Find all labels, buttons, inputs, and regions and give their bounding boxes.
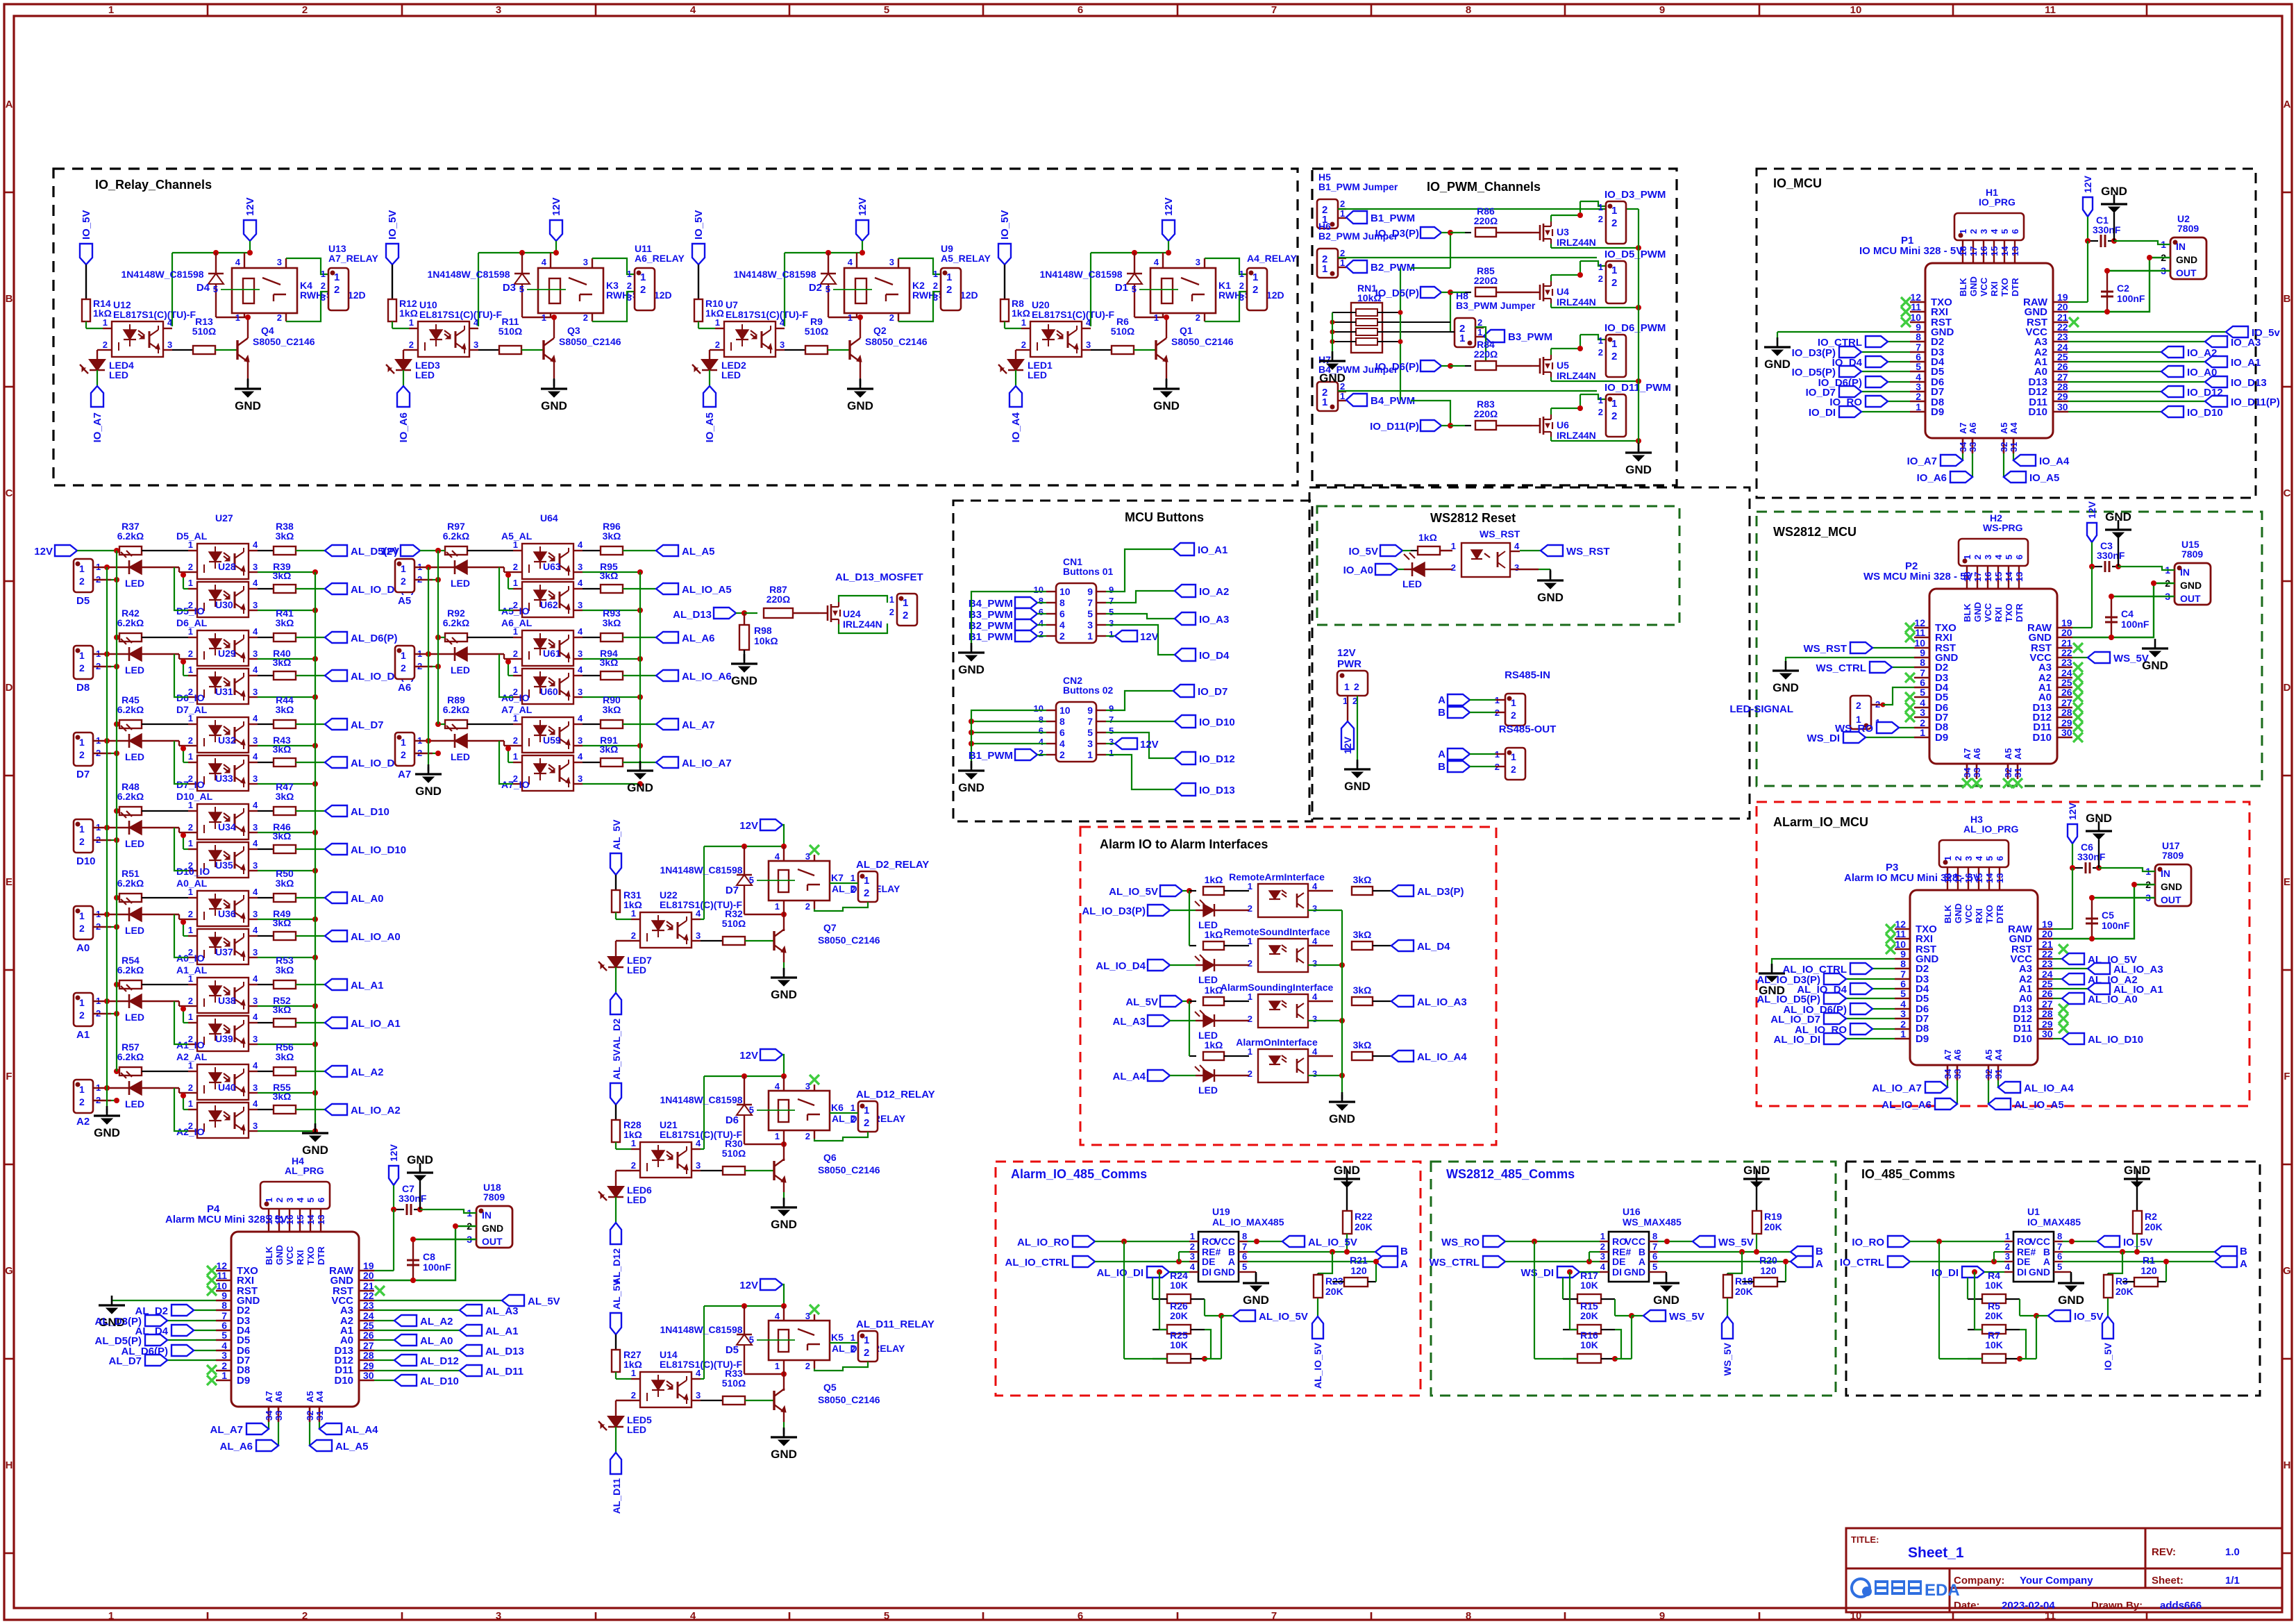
svg-text:RemoteArmInterface: RemoteArmInterface: [1229, 871, 1325, 882]
svg-text:AL_A6: AL_A6: [219, 1441, 253, 1453]
svg-text:4: 4: [253, 1012, 258, 1022]
svg-text:5: 5: [2057, 1262, 2062, 1272]
svg-text:2: 2: [627, 281, 632, 291]
svg-text:4: 4: [253, 838, 258, 848]
svg-text:3: 3: [1979, 229, 1989, 234]
svg-text:2: 2: [277, 312, 282, 323]
svg-text:AL_IO_A0: AL_IO_A0: [2088, 994, 2138, 1005]
svg-text:14: 14: [305, 1214, 316, 1225]
svg-text:U16: U16: [1623, 1206, 1641, 1217]
svg-text:OUT: OUT: [2161, 894, 2181, 905]
svg-text:3kΩ: 3kΩ: [273, 1091, 292, 1102]
svg-text:4: 4: [253, 925, 258, 935]
svg-text:4: 4: [1059, 619, 1065, 630]
svg-text:GND: GND: [1653, 1294, 1679, 1307]
svg-text:IO_Relay_Channels: IO_Relay_Channels: [95, 178, 212, 192]
svg-text:9: 9: [1109, 703, 1114, 714]
svg-text:3: 3: [578, 600, 583, 610]
svg-text:12V: 12V: [380, 546, 399, 558]
svg-text:3: 3: [1239, 292, 1244, 303]
svg-text:10K: 10K: [1985, 1280, 2003, 1291]
svg-text:Q2: Q2: [873, 325, 887, 336]
svg-text:BLK: BLK: [1962, 603, 1972, 622]
svg-text:VCC: VCC: [1214, 1236, 1235, 1247]
svg-text:U33: U33: [215, 773, 233, 784]
svg-text:3: 3: [1109, 737, 1114, 747]
svg-text:AL_A1: AL_A1: [351, 980, 384, 991]
svg-text:IO_D3_PWM: IO_D3_PWM: [1604, 189, 1666, 201]
svg-text:IO_5V: IO_5V: [2102, 1342, 2113, 1370]
svg-text:31: 31: [2009, 442, 2019, 452]
PWM gnd bus: [1638, 209, 1639, 449]
WS_RST flag into P2: [1872, 647, 1914, 648]
svg-text:WS-PRG: WS-PRG: [1983, 522, 2023, 533]
svg-text:100nF: 100nF: [423, 1262, 451, 1273]
svg-text:1: 1: [513, 539, 518, 550]
svg-text:12V: 12V: [1140, 739, 1159, 751]
svg-text:1: 1: [513, 751, 518, 762]
svg-text:A5: A5: [1984, 1049, 1994, 1061]
svg-text:B: B: [2240, 1246, 2247, 1257]
svg-text:9: 9: [1659, 4, 1665, 16]
svg-text:DTR: DTR: [1995, 905, 2005, 923]
P1 right net flags: [2068, 331, 2226, 333]
svg-text:5: 5: [1916, 361, 1921, 372]
svg-text:H: H: [6, 1459, 13, 1471]
svg-text:A: A: [2043, 1256, 2050, 1267]
svg-text:LED: LED: [451, 664, 470, 676]
svg-text:4: 4: [578, 664, 583, 675]
svg-text:IO_RO: IO_RO: [1852, 1237, 1884, 1248]
svg-text:U61: U61: [543, 648, 561, 659]
svg-text:12V: 12V: [1163, 197, 1175, 216]
svg-text:IO_D11(P): IO_D11(P): [2231, 396, 2280, 408]
svg-text:3: 3: [2005, 1251, 2010, 1262]
svg-text:IO_DI: IO_DI: [1932, 1267, 1959, 1279]
svg-text:IO_5V: IO_5V: [2074, 1311, 2104, 1323]
svg-text:1: 1: [933, 269, 938, 279]
svg-text:D10: D10: [2013, 1033, 2032, 1045]
svg-text:LED: LED: [721, 369, 741, 380]
svg-text:AL_D7: AL_D7: [351, 719, 384, 731]
svg-text:A6_RELAY: A6_RELAY: [635, 253, 685, 264]
svg-text:4: 4: [1514, 541, 1520, 551]
opto group A2 (U39/U40): [74, 1080, 93, 1113]
R19 20K pullup: [1756, 1169, 1758, 1179]
svg-text:B: B: [2284, 293, 2291, 305]
svg-text:AL_A2: AL_A2: [420, 1316, 453, 1328]
svg-text:Your Company: Your Company: [2020, 1575, 2093, 1587]
svg-text:TXO: TXO: [1984, 905, 1995, 923]
svg-text:DI: DI: [2017, 1266, 2027, 1278]
svg-text:2: 2: [946, 284, 952, 296]
svg-text:1: 1: [1600, 1231, 1605, 1241]
svg-text:1: 1: [188, 713, 193, 723]
svg-text:20K: 20K: [1580, 1310, 1598, 1321]
svg-text:220Ω: 220Ω: [1474, 275, 1498, 286]
svg-text:1: 1: [715, 317, 720, 328]
svg-text:6: 6: [1652, 1251, 1657, 1262]
svg-text:1: 1: [79, 650, 85, 661]
svg-text:2: 2: [1598, 274, 1603, 284]
svg-text:IO_A4: IO_A4: [2039, 455, 2070, 467]
svg-text:28: 28: [363, 1350, 374, 1361]
svg-text:D3: D3: [503, 282, 516, 294]
svg-text:4: 4: [775, 851, 780, 862]
svg-text:4: 4: [253, 664, 258, 675]
svg-text:IO_A6: IO_A6: [1917, 472, 1947, 484]
svg-text:RXI: RXI: [1993, 607, 2004, 622]
svg-text:IO_A3: IO_A3: [1199, 614, 1229, 626]
svg-text:1: 1: [1598, 395, 1603, 405]
svg-text:4: 4: [253, 713, 258, 723]
svg-text:1: 1: [1344, 681, 1350, 692]
svg-text:IO_D10: IO_D10: [1199, 717, 1235, 728]
svg-text:DE: DE: [1612, 1256, 1625, 1267]
svg-text:IRLZ44N: IRLZ44N: [843, 619, 882, 630]
svg-text:AL_D13_MOSFET: AL_D13_MOSFET: [835, 571, 923, 583]
WS2812 Reset outer box: [1309, 487, 1750, 819]
MAX485 GND pin5: [2063, 1271, 2071, 1273]
svg-text:3: 3: [1983, 555, 1993, 560]
svg-text:WS2812 Reset: WS2812 Reset: [1430, 511, 1516, 525]
svg-text:20: 20: [363, 1270, 374, 1281]
svg-text:Q3: Q3: [567, 325, 580, 336]
svg-text:1: 1: [627, 269, 632, 279]
MCU P4 Alarm MCU Mini 328 - 5V: [231, 1232, 359, 1407]
svg-text:1: 1: [1598, 335, 1603, 346]
svg-text:A6: A6: [398, 682, 411, 694]
svg-text:RXI: RXI: [1989, 281, 2000, 296]
svg-text:H: H: [2284, 1459, 2291, 1471]
svg-text:1: 1: [513, 626, 518, 637]
svg-text:13: 13: [2010, 246, 2020, 256]
svg-text:26: 26: [2042, 988, 2053, 999]
svg-text:2: 2: [188, 1082, 193, 1093]
svg-text:4: 4: [775, 1311, 780, 1321]
svg-text:WS_DI: WS_DI: [1807, 733, 1840, 744]
svg-text:2: 2: [1248, 1014, 1252, 1024]
svg-text:5: 5: [221, 1330, 227, 1341]
svg-text:10: 10: [1034, 703, 1044, 714]
svg-text:TXO: TXO: [2004, 603, 2014, 622]
svg-text:U27: U27: [215, 512, 233, 524]
svg-text:A: A: [1400, 1258, 1408, 1270]
svg-text:1: 1: [321, 269, 326, 279]
svg-text:5: 5: [1109, 726, 1114, 736]
svg-text:1: 1: [188, 578, 193, 588]
svg-text:A6: A6: [1952, 1049, 1963, 1061]
relay channel IO_A5 (U7,Q2,K2): [692, 244, 705, 265]
svg-text:A: A: [1228, 1256, 1235, 1267]
svg-text:IO_PRG: IO_PRG: [1979, 196, 2016, 208]
svg-text:D5: D5: [76, 595, 90, 607]
svg-text:GND: GND: [94, 1126, 120, 1139]
svg-text:4: 4: [2005, 1262, 2011, 1272]
svg-text:GND: GND: [1344, 780, 1371, 793]
svg-text:LED: LED: [125, 1012, 144, 1023]
svg-text:B2_PWM: B2_PWM: [969, 620, 1013, 632]
svg-text:8: 8: [1039, 596, 1044, 606]
svg-text:AL_A3: AL_A3: [1112, 1016, 1146, 1028]
svg-text:AL_A7: AL_A7: [682, 719, 715, 731]
svg-text:A5: A5: [2003, 748, 2013, 760]
svg-text:220Ω: 220Ω: [766, 594, 791, 605]
svg-text:Q4: Q4: [261, 325, 274, 336]
svg-text:U38: U38: [218, 995, 236, 1006]
svg-text:1: 1: [235, 312, 240, 323]
svg-text:10: 10: [1059, 705, 1071, 716]
R23 20K + AL_IO_5V: [1318, 1252, 1332, 1273]
svg-text:3: 3: [578, 562, 583, 572]
svg-text:1: 1: [79, 737, 85, 748]
svg-text:AL_IO_A6: AL_IO_A6: [1882, 1099, 1932, 1111]
svg-text:34: 34: [1943, 1069, 1953, 1079]
svg-text:AL_IO_D10: AL_IO_D10: [351, 844, 406, 856]
svg-text:AL_5V: AL_5V: [611, 1279, 622, 1309]
svg-text:D8: D8: [76, 682, 90, 694]
svg-text:B1_PWM: B1_PWM: [969, 750, 1013, 762]
svg-text:3: 3: [696, 1390, 701, 1400]
svg-text:2: 2: [1248, 903, 1252, 914]
P1 GND: [1777, 331, 1910, 333]
svg-text:C: C: [2284, 487, 2291, 499]
svg-text:1N4148W_C81598: 1N4148W_C81598: [733, 269, 816, 280]
svg-text:1: 1: [775, 901, 780, 912]
svg-text:A4_RELAY: A4_RELAY: [1247, 253, 1298, 264]
svg-text:3: 3: [277, 257, 282, 267]
svg-text:12V: 12V: [388, 1144, 399, 1162]
svg-text:IRLZ44N: IRLZ44N: [1557, 296, 1596, 308]
svg-text:1: 1: [188, 887, 193, 897]
svg-text:4: 4: [253, 800, 258, 810]
svg-text:IN: IN: [482, 1209, 492, 1221]
svg-text:GND: GND: [1243, 1294, 1269, 1307]
svg-text:2: 2: [640, 284, 646, 296]
svg-text:2: 2: [401, 576, 406, 587]
svg-text:3: 3: [1312, 1014, 1317, 1024]
svg-text:3: 3: [1963, 856, 1974, 861]
svg-text:3: 3: [253, 773, 258, 784]
svg-text:AL_A5: AL_A5: [682, 546, 715, 558]
svg-text:3kΩ: 3kΩ: [273, 1004, 292, 1015]
svg-text:2: 2: [401, 749, 406, 760]
svg-text:2: 2: [1021, 340, 1026, 350]
svg-text:28: 28: [2061, 707, 2072, 718]
svg-text:U30: U30: [215, 599, 233, 610]
svg-text:7809: 7809: [2181, 549, 2203, 560]
svg-text:8: 8: [1466, 1610, 1471, 1622]
svg-text:G: G: [2283, 1265, 2291, 1277]
alarm interface row RemoteSoundInterface: [1189, 945, 1196, 946]
svg-text:BLK: BLK: [1958, 278, 1968, 296]
svg-text:LED: LED: [125, 578, 144, 589]
svg-text:10: 10: [1850, 4, 1862, 16]
relay circuit AL_D12_RELAY (U21,Q6,K6): [610, 1083, 621, 1105]
svg-text:AL_IO_A2: AL_IO_A2: [351, 1105, 401, 1116]
svg-text:GND: GND: [1953, 903, 1963, 923]
svg-text:U1: U1: [2027, 1206, 2040, 1217]
svg-text:2: 2: [1611, 277, 1617, 289]
svg-text:1: 1: [1087, 749, 1093, 760]
svg-text:1: 1: [401, 563, 406, 574]
svg-text:1: 1: [264, 1198, 274, 1203]
svg-text:4: 4: [253, 1060, 258, 1071]
svg-text:12V: 12V: [1140, 631, 1159, 643]
svg-text:4: 4: [253, 626, 258, 637]
svg-text:3: 3: [1600, 1251, 1605, 1262]
svg-text:3kΩ: 3kΩ: [276, 791, 294, 802]
svg-text:GND: GND: [302, 1144, 328, 1157]
svg-text:2: 2: [1248, 958, 1252, 969]
svg-text:1: 1: [848, 312, 853, 323]
svg-text:12V: 12V: [551, 197, 562, 216]
svg-text:RS485-OUT: RS485-OUT: [1499, 723, 1557, 735]
svg-text:3kΩ: 3kΩ: [276, 1051, 294, 1062]
svg-text:GND: GND: [2176, 254, 2197, 265]
svg-text:220Ω: 220Ω: [1474, 408, 1498, 419]
svg-text:B4_PWM: B4_PWM: [969, 598, 1013, 610]
svg-text:1: 1: [1248, 991, 1252, 1002]
svg-text:LED: LED: [627, 964, 646, 976]
svg-text:6.2kΩ: 6.2kΩ: [117, 791, 144, 802]
svg-text:RXI: RXI: [1974, 908, 1984, 923]
svg-text:AL_A7: AL_A7: [210, 1424, 243, 1436]
svg-text:AL_D6(P): AL_D6(P): [351, 633, 398, 644]
svg-text:3: 3: [696, 930, 701, 941]
svg-text:U36: U36: [218, 908, 236, 919]
svg-text:D9: D9: [1935, 732, 1948, 744]
svg-text:7809: 7809: [483, 1191, 505, 1203]
R1 120 termination: [2134, 1278, 2158, 1287]
P4 right net flags: [374, 1300, 502, 1301]
svg-text:13: 13: [316, 1215, 326, 1225]
svg-text:1: 1: [221, 1370, 227, 1381]
svg-text:1N4148W_C81598: 1N4148W_C81598: [660, 1094, 742, 1105]
svg-text:1: 1: [188, 1012, 193, 1022]
svg-text:1: 1: [775, 1131, 780, 1141]
svg-text:510Ω: 510Ω: [722, 918, 746, 929]
svg-text:1: 1: [188, 800, 193, 810]
svg-text:6: 6: [1059, 727, 1065, 738]
svg-text:2: 2: [631, 1390, 636, 1400]
svg-text:GND: GND: [1625, 463, 1652, 476]
svg-text:U35: U35: [215, 860, 233, 871]
svg-text:3: 3: [583, 257, 588, 267]
WS2812 Reset green box: [1317, 506, 1679, 625]
svg-text:Q5: Q5: [823, 1382, 837, 1393]
svg-text:5: 5: [884, 1610, 889, 1622]
svg-text:220Ω: 220Ω: [1474, 215, 1498, 226]
svg-text:5: 5: [1132, 284, 1137, 294]
svg-text:3: 3: [221, 1350, 227, 1361]
svg-text:5: 5: [519, 284, 524, 294]
P3 left net flags: [1872, 968, 1895, 969]
svg-text:4: 4: [848, 257, 853, 267]
svg-text:20: 20: [2057, 301, 2068, 312]
svg-text:510Ω: 510Ω: [498, 326, 523, 337]
svg-text:10K: 10K: [1580, 1280, 1598, 1291]
svg-text:120: 120: [1350, 1265, 1367, 1276]
svg-text:10kΩ: 10kΩ: [754, 635, 778, 646]
svg-text:A0: A0: [76, 942, 90, 954]
svg-text:1: 1: [1340, 391, 1345, 401]
svg-text:EL817S1(C)(TU)-F: EL817S1(C)(TU)-F: [726, 309, 808, 320]
svg-text:3: 3: [780, 340, 785, 350]
svg-text:3: 3: [474, 340, 478, 350]
svg-text:2: 2: [513, 562, 518, 572]
svg-text:6: 6: [2057, 1251, 2062, 1262]
svg-text:3: 3: [253, 1034, 258, 1044]
svg-text:2: 2: [79, 662, 85, 673]
svg-text:4: 4: [775, 1081, 780, 1091]
svg-text:3kΩ: 3kΩ: [603, 617, 621, 628]
svg-text:AL_IO_D10: AL_IO_D10: [2088, 1034, 2143, 1046]
svg-text:GND: GND: [771, 988, 797, 1001]
svg-text:5: 5: [1109, 607, 1114, 617]
svg-text:2: 2: [188, 822, 193, 832]
svg-text:Q1: Q1: [1180, 325, 1193, 336]
svg-text:3: 3: [805, 1311, 810, 1321]
svg-text:100nF: 100nF: [2121, 619, 2150, 630]
MCU P1 IO MCU Mini 328 - 5V: [1925, 263, 2053, 438]
svg-text:7809: 7809: [2177, 223, 2199, 234]
svg-text:DI: DI: [1202, 1266, 1212, 1278]
svg-text:6: 6: [1078, 4, 1083, 16]
svg-text:4: 4: [1312, 991, 1318, 1002]
svg-text:3kΩ: 3kΩ: [1353, 1039, 1372, 1050]
svg-text:GND: GND: [1334, 1164, 1360, 1177]
P1 no-connect X marks: [1901, 297, 1911, 307]
svg-text:26: 26: [2061, 687, 2072, 698]
svg-text:IO_CTRL: IO_CTRL: [1840, 1257, 1884, 1269]
svg-text:3: 3: [253, 735, 258, 746]
svg-text:2: 2: [1039, 629, 1044, 639]
svg-text:1/1: 1/1: [2225, 1575, 2240, 1587]
svg-text:1: 1: [850, 1103, 855, 1113]
opto group D5 (U27/U28): [74, 559, 93, 592]
MAX485 GND pin5: [1658, 1271, 1666, 1273]
svg-text:2: 2: [1916, 391, 1921, 402]
svg-text:8: 8: [1059, 597, 1065, 608]
svg-text:1: 1: [1340, 208, 1345, 219]
svg-text:A4: A4: [1993, 1049, 2004, 1061]
svg-text:32: 32: [2003, 768, 2013, 778]
svg-text:Sheet:: Sheet:: [2152, 1575, 2184, 1587]
svg-text:GND: GND: [482, 1223, 503, 1234]
svg-text:3kΩ: 3kΩ: [600, 657, 619, 668]
svg-text:AL_D10: AL_D10: [351, 806, 389, 818]
svg-text:GND: GND: [2105, 510, 2131, 524]
svg-text:3: 3: [1312, 1069, 1317, 1079]
svg-text:510Ω: 510Ω: [805, 326, 829, 337]
svg-text:3: 3: [805, 851, 810, 862]
svg-text:1: 1: [1248, 936, 1252, 946]
svg-text:6: 6: [2010, 229, 2020, 234]
svg-text:10K: 10K: [1170, 1280, 1188, 1291]
svg-text:7: 7: [1271, 4, 1277, 16]
svg-text:2: 2: [715, 340, 720, 350]
svg-text:4: 4: [542, 257, 547, 267]
svg-text:AL_IO_A1: AL_IO_A1: [351, 1018, 401, 1030]
svg-text:2: 2: [274, 1198, 285, 1203]
svg-text:AL_5V: AL_5V: [1125, 996, 1158, 1008]
svg-text:3: 3: [496, 4, 501, 16]
svg-text:D5: D5: [726, 1344, 739, 1356]
P3 GND left: [1772, 959, 1895, 971]
svg-text:VCC: VCC: [1983, 603, 1993, 622]
svg-text:Sheet_1: Sheet_1: [1908, 1545, 1964, 1561]
